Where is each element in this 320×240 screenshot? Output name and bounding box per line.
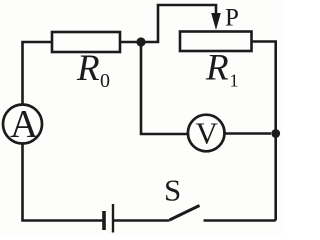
svg-text:R: R xyxy=(205,48,229,89)
node junction (left) xyxy=(136,37,145,46)
wire R0 to junction node xyxy=(120,41,141,44)
wire left rail lower: ammeter down to bottom corner, to battery xyxy=(23,144,103,221)
wire R1 right to right rail down to bottom xyxy=(252,42,276,221)
arrowhead of wiper P xyxy=(211,13,221,30)
node junction (right) xyxy=(271,129,280,138)
wire switch right contact to right rail xyxy=(204,219,276,222)
wire left top: corner from left vertical up to R0 xyxy=(23,42,53,105)
battery cell: short thick plate xyxy=(102,211,106,230)
svg-text:V: V xyxy=(196,116,219,151)
svg-text:A: A xyxy=(10,103,38,146)
voltmeter V xyxy=(188,115,225,152)
svg-text:1: 1 xyxy=(230,71,239,91)
switch S blade xyxy=(170,206,200,221)
wire wiper loop: junction up and over to arrow shaft xyxy=(141,5,216,42)
ammeter A xyxy=(3,105,42,144)
wire V to right junction xyxy=(225,132,272,135)
svg-text:P: P xyxy=(225,5,239,32)
resistor R0 xyxy=(52,32,120,52)
svg-text:R: R xyxy=(76,48,100,89)
svg-text:0: 0 xyxy=(100,70,110,92)
wire voltmeter branch: from left junction down then right to V xyxy=(141,42,188,134)
svg-text:S: S xyxy=(164,173,181,208)
rheostat R1 xyxy=(180,32,252,52)
battery cell: long thin plate xyxy=(112,204,114,233)
wire battery to switch xyxy=(113,219,170,222)
